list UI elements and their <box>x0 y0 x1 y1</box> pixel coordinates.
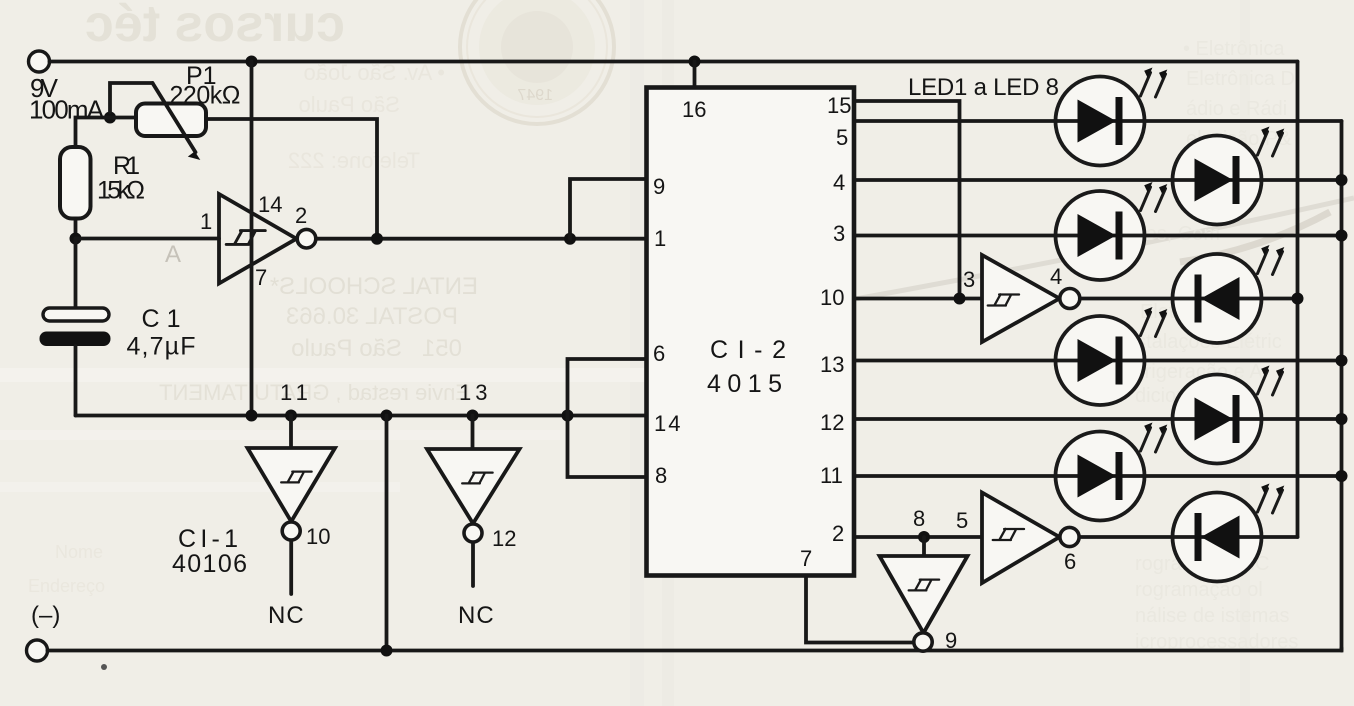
svg-text:6: 6 <box>1064 549 1076 574</box>
wire input to gate 1 <box>76 237 220 241</box>
svg-text:5: 5 <box>836 125 848 150</box>
svg-text:10: 10 <box>306 524 330 549</box>
node pin15 drop junction <box>954 293 966 305</box>
op-amp U5 gate E CI-1 Schmitt inverter pins 5-6 <box>982 493 1079 584</box>
svg-text:LED1 a LED 8: LED1 a LED 8 <box>908 74 1059 101</box>
LED D4 <box>1173 245 1285 343</box>
svg-text:12: 12 <box>492 526 516 551</box>
wire pin 15 <box>854 101 960 299</box>
svg-text:1: 1 <box>654 226 666 251</box>
wire C1 bottom lead <box>74 346 78 416</box>
svg-text:rogramação ol: rogramação ol <box>1135 579 1263 601</box>
resistor R1 <box>60 147 91 219</box>
svg-text:Endereço: Endereço <box>28 576 105 596</box>
svg-text:9: 9 <box>653 174 665 199</box>
potentiometer P1 <box>136 104 206 137</box>
battery + terminal <box>29 51 50 72</box>
svg-text:Nome: Nome <box>55 542 103 562</box>
svg-text:cursos téc: cursos téc <box>85 0 345 53</box>
op-amp U2 gate B CI-1 Schmitt inverter pins 11-10 <box>248 416 336 595</box>
svg-text:100mA: 100mA <box>29 95 105 125</box>
IC CI-2 4015 <box>647 88 855 576</box>
svg-text:13: 13 <box>459 380 491 405</box>
LED D5 <box>1056 307 1168 405</box>
wire right collector rail <box>1340 121 1344 651</box>
node row4 junction <box>1292 293 1304 305</box>
capacitor C1 <box>40 308 111 346</box>
wire pin 16 stub <box>693 62 697 89</box>
svg-text:2: 2 <box>295 203 307 228</box>
LED D3 <box>1056 182 1168 280</box>
wire pin 9 bracket <box>570 179 647 239</box>
node rail drop junction <box>381 410 393 422</box>
LED D7 <box>1056 423 1168 521</box>
wire CI-2 pin 7 to gate F output <box>806 576 914 643</box>
svg-text:2: 2 <box>832 521 844 546</box>
svg-text:• Av. São João: • Av. São João <box>304 60 445 85</box>
wire row 5 pin 13 <box>854 359 1342 363</box>
wire gate A output <box>316 237 647 241</box>
node pin16 junction <box>689 56 701 68</box>
wire top supply rail <box>50 60 1298 64</box>
wire row 2 pin 4 <box>854 178 1342 182</box>
svg-text:8: 8 <box>913 506 925 531</box>
wire plus rail right <box>1296 62 1300 538</box>
wire P1 right lead to output <box>206 119 377 239</box>
node row7 collector junction <box>1336 470 1348 482</box>
svg-text:NC: NC <box>458 602 495 629</box>
wire row 3 pin 3 <box>854 234 1342 238</box>
svg-text:7: 7 <box>255 265 267 290</box>
svg-text:NC: NC <box>268 602 305 629</box>
battery - terminal <box>27 640 48 661</box>
node rail power-line junction <box>246 410 258 422</box>
svg-text:40106: 40106 <box>172 550 247 578</box>
svg-text:C 1: C 1 <box>142 305 181 333</box>
node oscillator input junction <box>70 233 82 245</box>
op-amp U1 gate A CI-1 Schmitt inverter pins 1-2 <box>219 194 316 284</box>
svg-text:11: 11 <box>820 463 843 488</box>
wire R1 top lead <box>76 118 111 148</box>
LED D1 <box>1056 68 1168 166</box>
op-amp U6 gate F CI-1 Schmitt inverter pins 8-9 <box>880 537 968 651</box>
svg-text:11: 11 <box>280 380 313 405</box>
node output junction <box>371 233 383 245</box>
wire R1 bottom lead <box>74 219 78 239</box>
wire row pin 10 <box>854 297 982 301</box>
node row3 collector junction <box>1336 230 1348 242</box>
wire pins 6-8 bracket <box>568 359 647 477</box>
wire negative rail <box>76 414 647 418</box>
svg-text:3: 3 <box>833 221 845 246</box>
svg-text:5: 5 <box>956 508 968 533</box>
svg-text:3: 3 <box>963 267 975 292</box>
svg-text:6: 6 <box>653 341 665 366</box>
wire P1 wiper arm <box>110 83 200 160</box>
wire C1 top lead <box>74 239 78 309</box>
svg-text:220kΩ: 220kΩ <box>170 82 241 110</box>
svg-text:15kΩ: 15kΩ <box>97 177 145 205</box>
wire bottom negative rail <box>48 648 1342 651</box>
svg-text:4,7µF: 4,7µF <box>127 333 196 361</box>
wire rail to bottom rail <box>385 416 389 653</box>
wire row pin 2 <box>854 535 982 539</box>
svg-text:1947: 1947 <box>517 87 553 104</box>
svg-text:Telefone: 222: Telefone: 222 <box>288 148 420 173</box>
node rail bracket junction <box>562 410 574 422</box>
svg-text:Eletrônica D: Eletrônica D <box>1186 68 1295 90</box>
svg-text:ENTAL SCHOOLS*: ENTAL SCHOOLS* <box>270 273 478 300</box>
svg-text:São Paulo: São Paulo <box>298 92 400 117</box>
wire row 1 pin 5 <box>854 119 1342 123</box>
node power drop junction <box>246 56 258 68</box>
svg-text:7: 7 <box>800 546 812 571</box>
svg-text:Envie restad , GRATUITAMENT: Envie restad , GRATUITAMENT <box>159 380 470 405</box>
node rail gate C junction <box>467 410 479 422</box>
svg-text:14: 14 <box>654 411 682 436</box>
LED D8 <box>1173 484 1285 582</box>
LED D2 <box>1173 127 1285 225</box>
svg-text:POSTAL 30.663: POSTAL 30.663 <box>286 303 458 330</box>
svg-text:• Eletrônica: • Eletrônica <box>1183 38 1285 60</box>
wire row 7 pin 11 <box>854 474 1342 478</box>
wire power drop CI-1 pins 14/7 <box>250 62 254 416</box>
svg-text:13: 13 <box>820 352 844 377</box>
node row2 collector junction <box>1336 174 1348 186</box>
svg-text:nálise de istemas: nálise de istemas <box>1135 605 1290 627</box>
svg-text:16: 16 <box>682 97 706 122</box>
svg-text:4: 4 <box>1050 264 1062 289</box>
svg-text:A: A <box>165 241 181 268</box>
node pin 8 stub junction <box>918 531 930 543</box>
node pin9 bracket junction <box>564 233 576 245</box>
wire row 8 <box>1080 535 1298 539</box>
svg-text:8: 8 <box>655 463 667 488</box>
wire row 6 pin 12 <box>854 417 1342 421</box>
op-amp U3 gate C CI-1 Schmitt inverter pins 13-12 <box>427 416 520 587</box>
op-amp U4 gate D CI-1 Schmitt inverter pins 3-4 <box>982 255 1080 342</box>
svg-text:15: 15 <box>827 93 851 118</box>
svg-text:ádio e Rádi: ádio e Rádi <box>1186 98 1287 120</box>
svg-text:9: 9 <box>945 628 957 653</box>
node bottom rail junction <box>381 645 393 657</box>
svg-text:10: 10 <box>820 285 844 310</box>
LED D6 <box>1173 366 1285 464</box>
node P1 wiper junction <box>104 112 116 124</box>
node row6 collector junction <box>1336 413 1348 425</box>
svg-text:12: 12 <box>820 410 844 435</box>
svg-text:051 São Paulo: 051 São Paulo <box>291 335 462 362</box>
wire row 4 <box>1080 297 1298 301</box>
svg-text:4: 4 <box>833 170 845 195</box>
svg-text:(–): (–) <box>31 602 60 629</box>
wire P1 left lead <box>110 116 136 120</box>
svg-text:14: 14 <box>258 192 282 217</box>
node rail gate B junction <box>285 410 297 422</box>
node row5 collector junction <box>1336 355 1348 367</box>
svg-text:1: 1 <box>200 209 212 234</box>
